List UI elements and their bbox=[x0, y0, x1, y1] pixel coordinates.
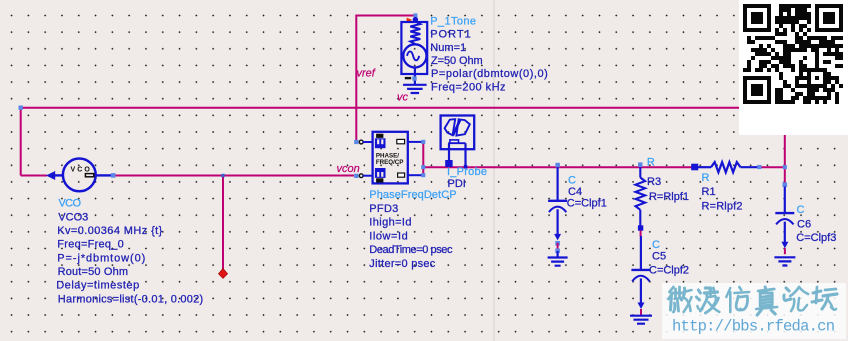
wire: output rail (PFD to R1) bbox=[423, 166, 692, 168]
svg-text:vc: vc bbox=[397, 92, 409, 104]
svg-text:DeadTime=0 psec: DeadTime=0 psec bbox=[369, 244, 453, 256]
VCO inner rect bbox=[85, 174, 93, 177]
svg-text:PORT1: PORT1 bbox=[430, 29, 471, 41]
junction dot bbox=[221, 174, 224, 177]
svg-text:P_1Tone: P_1Tone bbox=[430, 16, 476, 28]
svg-text:C4: C4 bbox=[568, 186, 582, 198]
svg-text:PhaseFreqDetCP: PhaseFreqDetCP bbox=[369, 189, 456, 201]
svg-text:C: C bbox=[568, 174, 576, 186]
svg-text:P=polar(dbmtow(0),0): P=polar(dbmtow(0),0) bbox=[431, 68, 548, 80]
capacitor C6 bbox=[784, 187, 786, 214]
right rail junction square bbox=[783, 165, 787, 169]
C4 junction pin square bbox=[555, 163, 560, 168]
wire: feedback top rail bbox=[21, 107, 785, 109]
svg-text:PDI: PDI bbox=[448, 178, 466, 190]
PFD ref pin ring bbox=[359, 140, 363, 144]
QR code modules bbox=[743, 4, 843, 104]
VCO circle (oscillator O1) bbox=[63, 159, 96, 192]
wire: rail R1 to right corner bbox=[760, 166, 785, 168]
PFD blue glyph bottom bbox=[375, 168, 386, 178]
svg-text:vcon: vcon bbox=[337, 163, 360, 175]
R1 right pin square bbox=[757, 165, 761, 169]
svg-text:FREQ/CP: FREQ/CP bbox=[376, 159, 404, 166]
PFD black tab top bbox=[376, 134, 383, 138]
node: corner pin square top-left bbox=[19, 106, 23, 110]
ground (port) bbox=[414, 82, 416, 85]
source bottom pin square bbox=[412, 76, 416, 80]
svg-text:R: R bbox=[647, 156, 655, 168]
VCO output pin square bbox=[111, 173, 116, 178]
svg-text:Ihigh=Id: Ihigh=Id bbox=[369, 217, 411, 229]
watermark background bbox=[662, 283, 846, 339]
PFD blue glyph top bbox=[375, 138, 386, 148]
watermark brush characters bbox=[669, 287, 838, 315]
svg-text:Kv=0.00364 MHz {t}: Kv=0.00364 MHz {t} bbox=[57, 225, 162, 237]
VCO lead right bbox=[96, 174, 111, 176]
svg-text:C: C bbox=[797, 204, 805, 216]
PFD vco lead bbox=[363, 175, 373, 177]
ground (C6) bbox=[774, 257, 795, 265]
svg-text:C=Clpf1: C=Clpf1 bbox=[567, 198, 607, 210]
capacitor C5 bbox=[640, 236, 642, 270]
QR code white box bbox=[739, 0, 848, 135]
svg-text:PFD3: PFD3 bbox=[369, 203, 398, 215]
meter face left blade bbox=[445, 119, 456, 135]
PFD vco pin square bbox=[354, 174, 358, 178]
svg-text:R1: R1 bbox=[702, 186, 716, 198]
svg-text:Harmonics=list(-0.01, 0.002): Harmonics=list(-0.01, 0.002) bbox=[58, 293, 203, 305]
port top pin dot bbox=[413, 17, 418, 22]
sine wave bbox=[407, 51, 419, 60]
VCO lead left bbox=[55, 174, 63, 176]
PFD white slot bottom-right bbox=[398, 173, 405, 177]
PFD out lead bottom bbox=[408, 174, 422, 176]
resistor R3 bbox=[639, 167, 641, 177]
svg-text:http://bbs.rfeda.cn: http://bbs.rfeda.cn bbox=[672, 318, 835, 336]
PFD out lead top bbox=[408, 141, 422, 143]
svg-text:R=Rlpf1: R=Rlpf1 bbox=[649, 191, 689, 203]
wire: vref vertical to PFD ref input bbox=[355, 15, 357, 141]
VCO input arrow bbox=[46, 171, 55, 180]
PFD out pin squares bbox=[421, 140, 425, 144]
PFD black tab bottom bbox=[376, 178, 383, 182]
probe right leg end square bbox=[464, 165, 468, 169]
svg-text:Num=1: Num=1 bbox=[430, 42, 466, 54]
wire: PFD output vertical bbox=[422, 142, 424, 176]
PFD white slot top-right bbox=[397, 139, 405, 143]
PFD U1 body bbox=[373, 132, 408, 184]
svg-text:VCO: VCO bbox=[71, 167, 92, 174]
svg-text:vref: vref bbox=[357, 67, 376, 79]
probe left leg bbox=[448, 143, 450, 160]
svg-text:R=Rlpf2: R=Rlpf2 bbox=[702, 200, 743, 212]
PFD vco pin ring bbox=[359, 174, 363, 178]
svg-text:Freq=200 kHz: Freq=200 kHz bbox=[431, 81, 506, 93]
svg-text:Ilow=Id: Ilow=Id bbox=[369, 230, 407, 242]
svg-text:C=Clpf3: C=Clpf3 bbox=[796, 232, 836, 244]
PFD ref pin square bbox=[354, 140, 358, 144]
wire: stub down to dangling end bbox=[222, 176, 224, 270]
minus sign bbox=[405, 77, 411, 79]
wire: left rail to VCO bbox=[21, 175, 47, 177]
wire: vref horizontal to port bbox=[356, 15, 414, 17]
svg-text:I_Probe: I_Probe bbox=[447, 166, 487, 178]
port top pin square bbox=[413, 13, 417, 17]
resistor R1 bbox=[698, 166, 711, 168]
R3 bottom pin square bbox=[638, 225, 643, 230]
wire: VCO output rail to PFD bbox=[114, 175, 354, 177]
ground (C5) bbox=[630, 316, 652, 324]
meter face right blade bbox=[456, 119, 469, 135]
source SRC1 rectangle bbox=[401, 22, 427, 74]
probe right leg bbox=[464, 143, 466, 166]
svg-text:C: C bbox=[652, 239, 660, 251]
svg-text:Freq=Freq_0: Freq=Freq_0 bbox=[57, 239, 124, 251]
C6 top pin square bbox=[783, 182, 788, 187]
port pin1 red arrow bbox=[407, 18, 413, 23]
page boundary line bbox=[493, 0, 495, 341]
wire: left vertical bbox=[20, 107, 22, 176]
dangling wire red diamond bbox=[218, 269, 227, 279]
source sine circle bbox=[403, 44, 426, 67]
svg-text:Jitter=0 psec: Jitter=0 psec bbox=[369, 258, 436, 270]
capacitor C4 bbox=[556, 167, 558, 201]
R3 junction pin square bbox=[638, 162, 643, 167]
I_Probe meter box bbox=[441, 116, 475, 150]
PFD ref lead bbox=[363, 141, 373, 143]
svg-text:C=Clpf2: C=Clpf2 bbox=[649, 264, 689, 276]
source internal resistor bbox=[410, 22, 420, 45]
svg-text:VCO3: VCO3 bbox=[58, 211, 88, 223]
meter needle bbox=[453, 120, 460, 136]
meter inner bar and tab bbox=[448, 142, 465, 144]
svg-text:R3: R3 bbox=[647, 176, 661, 188]
svg-text:C5: C5 bbox=[652, 251, 666, 263]
source bottom lead bbox=[414, 68, 416, 83]
ground (C4) bbox=[548, 258, 568, 266]
svg-text:VCO: VCO bbox=[59, 198, 82, 210]
svg-text:Z=50 Ohm: Z=50 Ohm bbox=[431, 55, 483, 67]
svg-text:Delay=timestep: Delay=timestep bbox=[56, 280, 139, 292]
svg-text:P=-j*dbmtow(0): P=-j*dbmtow(0) bbox=[57, 252, 145, 264]
svg-text:R: R bbox=[702, 172, 710, 184]
svg-text:Rout=50 Ohm: Rout=50 Ohm bbox=[58, 266, 129, 278]
wire: right vertical (top rail down to C6) bbox=[784, 107, 786, 183]
probe pin square bbox=[445, 160, 452, 167]
svg-text:C6: C6 bbox=[797, 219, 811, 231]
R1 left pin square bbox=[691, 164, 698, 171]
